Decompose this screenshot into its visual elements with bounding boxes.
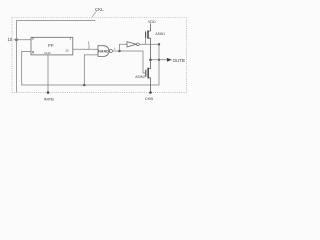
svg-text:20: 20 xyxy=(65,48,69,52)
svg-text:FF: FF xyxy=(48,43,54,48)
svg-text:OUTB: OUTB xyxy=(173,58,185,63)
svg-text:VDD: VDD xyxy=(148,20,156,24)
svg-text:CKL: CKL xyxy=(95,7,104,12)
svg-text:NAND: NAND xyxy=(98,49,109,53)
svg-text:1: 1 xyxy=(88,41,90,45)
svg-text:CLR: CLR xyxy=(44,51,51,55)
svg-text:CKB: CKB xyxy=(145,96,154,101)
svg-text:1: 1 xyxy=(69,37,71,41)
svg-text:ASW2: ASW2 xyxy=(135,75,145,79)
svg-text:ASW1: ASW1 xyxy=(155,32,165,36)
svg-text:10: 10 xyxy=(8,37,13,42)
svg-text:INITB: INITB xyxy=(44,96,55,101)
